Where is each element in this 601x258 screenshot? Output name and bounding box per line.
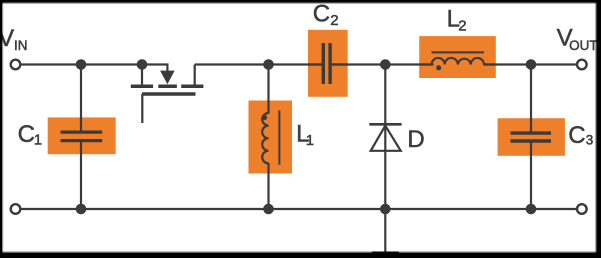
node D (top diode junction) — [380, 59, 391, 70]
wire L1 branch — [267, 65, 269, 210]
label C1 — [18, 121, 43, 148]
wire bottom rail — [16, 208, 582, 210]
label C3 — [568, 122, 593, 149]
node C (top L1 junction) — [263, 59, 274, 70]
wire top rail (L2 coil to VOUT) — [484, 63, 582, 65]
label L2 — [447, 6, 467, 35]
transistor Q1 (MOSFET switch) — [131, 65, 204, 124]
terminal VOUT- — [577, 204, 587, 214]
inductor L1 — [249, 101, 293, 174]
wire top rail (C2 right plate to L2 coil) — [332, 63, 434, 65]
capacitor C2 — [308, 30, 348, 97]
wire top rail left (VIN to MOSFET body tie) — [16, 63, 169, 65]
terminal VOUT+ — [577, 60, 587, 70]
label D — [407, 126, 424, 153]
node E (top C3 junction) — [526, 59, 537, 70]
label C2 — [313, 1, 339, 30]
capacitor C1 — [48, 117, 116, 154]
capacitor C3 — [498, 118, 565, 156]
inductor L2 — [419, 36, 496, 78]
terminal VIN- — [11, 204, 21, 214]
wire diode branch — [384, 65, 386, 210]
wire C1 branch — [80, 65, 82, 210]
node F (bottom C1 junction) — [76, 204, 87, 215]
node A (top C1 junction) — [76, 59, 87, 70]
node I (bottom C3 junction) — [526, 204, 537, 215]
label VIN — [0, 25, 27, 53]
diode D — [369, 124, 401, 151]
terminal VIN+ — [11, 60, 21, 70]
node H (bottom diode junction) — [380, 204, 391, 215]
node B (MOSFET source junction) — [137, 59, 148, 70]
ground — [372, 209, 399, 258]
label VOUT — [557, 25, 598, 54]
wire top rail (MOSFET drain to C2 left plate) — [195, 63, 322, 65]
wire C3 branch — [530, 65, 532, 210]
label L1 — [296, 121, 314, 150]
node G (bottom L1 junction) — [263, 204, 274, 215]
